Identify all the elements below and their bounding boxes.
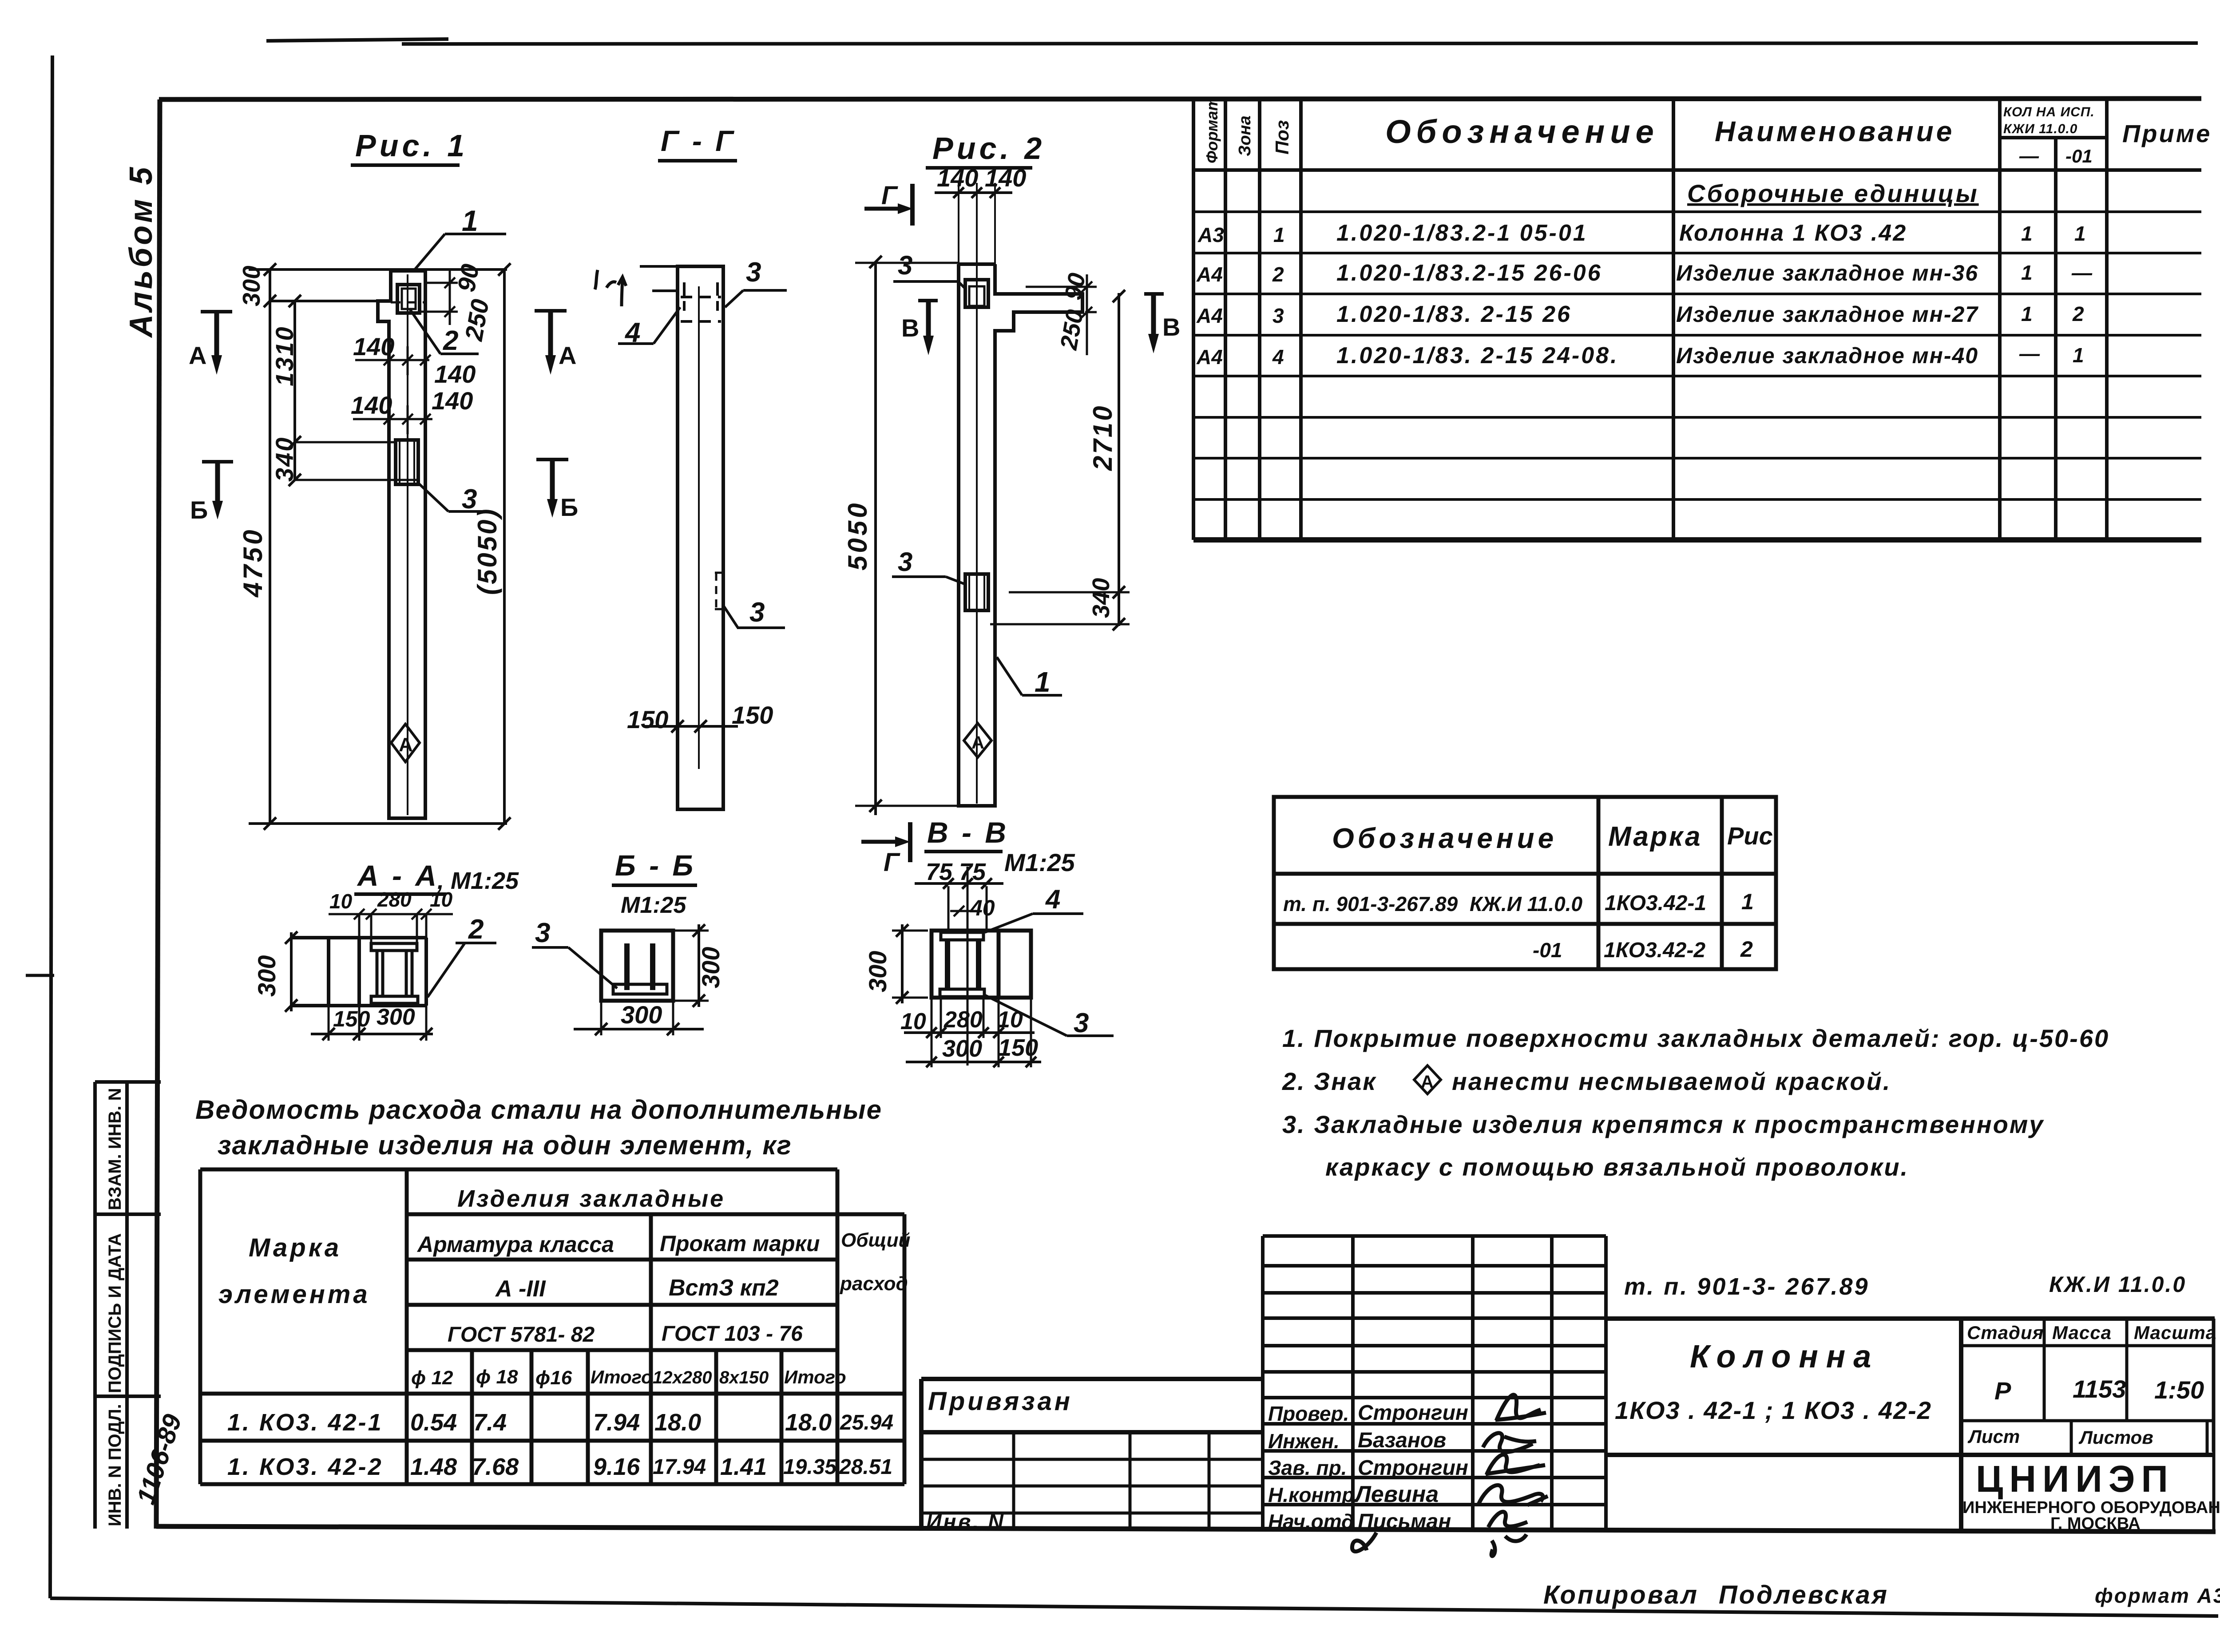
svg-text:ГОСТ 5781- 82: ГОСТ 5781- 82 [448,1323,595,1347]
fig1 dim line 4750 (left) [264,269,276,830]
G-G leader label 4 [618,307,680,348]
svg-text:150: 150 [333,1006,370,1031]
svg-text:1.020-1/83. 2-15 24-08.: 1.020-1/83. 2-15 24-08. [1336,343,1619,368]
svg-text:Нач.отд: Нач.отд [1268,1510,1354,1533]
fig2 column outline with corbel [959,264,1082,806]
svg-text:Инв. N: Инв. N [926,1510,1005,1534]
svg-text:340: 340 [1088,578,1114,618]
V-V leader label 4 [985,884,1083,932]
fig2 dim line 2710/340 right [990,290,1130,630]
fig1 dims 250/90 top right [421,271,458,325]
svg-text:ВЗАМ. ИНВ. N: ВЗАМ. ИНВ. N [105,1088,125,1211]
svg-text:А: А [971,733,984,753]
svg-text:Приме: Приме [2122,119,2212,147]
svg-text:ЦНИИЭП: ЦНИИЭП [1976,1458,2174,1500]
svg-text:В - В: В - В [927,816,1009,849]
svg-text:Итого: Итого [784,1367,846,1387]
svg-text:А: А [189,341,206,369]
fig1 dims 140/140 lower [353,405,432,434]
svg-text:Инжен.: Инжен. [1268,1430,1340,1453]
svg-text:Левина: Левина [1353,1482,1439,1507]
svg-text:1: 1 [2073,344,2084,367]
svg-text:Общий: Общий [841,1229,910,1251]
svg-text:9.16: 9.16 [593,1454,640,1480]
handwritten check mark near G-G [595,270,626,306]
svg-text:Стронгин: Стронгин [1358,1456,1468,1480]
svg-text:КЖ.И 11.0.0: КЖ.И 11.0.0 [2049,1272,2186,1297]
spec table header texts [1203,97,2212,167]
svg-text:закладные изделия на один: закладные изделия на один элемент, кг [218,1130,792,1160]
svg-text:Масшта: Масшта [2134,1322,2216,1343]
svg-text:ϕ16: ϕ16 [535,1367,572,1389]
svg-text:1: 1 [2021,302,2033,325]
svg-text:-01: -01 [1533,939,1562,962]
spec row 2: MN-36 [1196,260,2093,286]
svg-text:3: 3 [898,250,912,280]
fig1 leader label 2 [409,309,479,356]
V-V channel plates item 3 [940,932,984,997]
svg-text:300: 300 [621,1001,662,1029]
svg-text:280: 280 [377,888,412,911]
fold mark on left edge [26,974,54,977]
svg-text:1.41: 1.41 [720,1454,767,1480]
svg-text:140: 140 [937,164,978,192]
G-G side plate marks [715,573,723,609]
svg-text:1: 1 [462,204,478,237]
svg-text:3: 3 [746,257,761,288]
svg-text:7.94: 7.94 [593,1409,640,1436]
svg-text:150: 150 [732,701,773,729]
svg-text:А3: А3 [1197,223,1224,246]
G-G embedded plate dashed [681,282,721,321]
svg-text:формат А3: формат А3 [2095,1584,2220,1607]
G-G leader label 3 top [725,257,787,307]
svg-text:М1:25: М1:25 [1004,848,1075,876]
svg-text:3: 3 [535,918,550,948]
svg-text:элемента: элемента [218,1280,370,1309]
svg-text:40: 40 [970,895,995,920]
svg-text:А: А [399,734,413,756]
svg-text:4: 4 [1272,345,1284,368]
svg-text:В: В [1162,313,1180,341]
signature row: Провер. Стронгин [1268,1401,1468,1425]
svg-text:Лист: Лист [1967,1426,2020,1447]
svg-text:5050: 5050 [843,501,872,570]
svg-text:Рис: Рис [1727,822,1773,850]
fig2 section mark V right [1144,294,1180,353]
svg-text:140: 140 [434,360,476,388]
svg-text:Изделие закладное мн-36: Изделие закладное мн-36 [1676,261,1978,285]
fig1 column outline [378,271,425,818]
note 2 diamond A sign [1414,1066,1441,1094]
svg-text:3: 3 [749,597,765,628]
svg-text:Формат: Формат [1203,97,1221,163]
svg-text:Стадия: Стадия [1967,1322,2044,1343]
svg-text:Марка: Марка [249,1233,341,1262]
fig1 section mark A right [535,311,576,375]
V-V bottom dims 10/280/10 [904,998,1035,1038]
svg-text:1153: 1153 [2073,1375,2126,1403]
title block: stage/mass/scale values [1994,1375,2204,1405]
section V-V title [924,816,1075,885]
steel table data row 2 [227,1454,892,1480]
svg-text:1.020-1/83.2-1 05-01: 1.020-1/83.2-1 05-01 [1336,220,1588,246]
svg-text:Наименование: Наименование [1715,115,1954,147]
fig1 bottom dimension line [249,822,507,825]
B-B bottom dim 300 [574,1001,704,1035]
svg-text:М1:25: М1:25 [621,892,686,918]
V-V section body [932,931,1031,998]
svg-text:Прокат марки: Прокат марки [660,1231,820,1256]
svg-text:3: 3 [1074,1008,1089,1038]
svg-text:7.68: 7.68 [472,1454,519,1480]
svg-text:340: 340 [270,436,298,482]
V-V bottom dims 300/150 [906,998,1041,1067]
G-G column outline [678,266,723,809]
B-B anchor bars item 3 [627,943,653,990]
svg-text:Масса: Масса [2052,1322,2112,1343]
fig2 dim line 5050 left [855,256,959,815]
fig2 section mark G top [864,181,913,226]
fig2 dims 90/250 at corbel [1026,274,1097,355]
A-A bottom dims 150/300 [311,1006,433,1041]
svg-text:300: 300 [253,955,281,997]
steel usage table grid [200,1169,904,1484]
svg-text:А - А: А - А [357,859,439,892]
svg-text:Изделие закладное мн-27: Изделие закладное мн-27 [1676,302,1978,327]
svg-text:1КО3.42-1: 1КО3.42-1 [1605,891,1706,915]
G-G leader label 3 middle [723,597,785,628]
B-B dim 300 right [673,924,709,1007]
album label "Альбом 5" vertical [123,165,159,338]
svg-text:300: 300 [942,1035,982,1062]
svg-text:ϕ 18: ϕ 18 [476,1366,518,1388]
handwritten signatures [1352,1395,1548,1556]
svg-text:4: 4 [1045,884,1060,914]
signature row: Нач.отд Письман [1268,1510,1451,1533]
svg-text:1: 1 [2021,222,2033,245]
spec row 1: column 1 KO3.42 [1197,220,2086,246]
svg-text:2: 2 [1272,263,1284,286]
fig1 leader label 1 [413,204,506,272]
svg-text:Рис. 1: Рис. 1 [355,128,468,163]
svg-text:3: 3 [462,484,477,515]
svg-text:17.94: 17.94 [653,1455,706,1479]
svg-text:Альбом 5: Альбом 5 [123,165,159,338]
G-G axis line [698,286,700,769]
svg-text:—: — [2019,145,2039,167]
svg-text:Колонна 1 КО3 .42: Колонна 1 КО3 .42 [1679,220,1907,246]
svg-text:Зона: Зона [1236,115,1254,156]
svg-text:Арматура класса: Арматура класса [416,1232,614,1257]
svg-text:ГОСТ 103 - 76: ГОСТ 103 - 76 [662,1322,803,1346]
B-B leader label 3 [532,918,617,988]
left binding strip grid [95,1082,161,1529]
title block: central signature grid [1263,1236,1606,1531]
svg-text:В: В [901,314,919,342]
svg-text:т. п. 901-3- 267.89: т. п. 901-3- 267.89 [1624,1273,1870,1300]
signature row: Зав.пр. Стронгин [1268,1456,1468,1480]
fig2 embedded plate 3 lower [965,574,988,610]
svg-text:Базанов: Базанов [1358,1429,1446,1452]
svg-text:Обозначение: Обозначение [1332,822,1557,854]
svg-text:140: 140 [353,333,394,361]
fig2 section mark V left [901,301,938,355]
section G-G title [658,124,737,161]
section A-A title [354,859,519,894]
B-B section body [601,931,673,1001]
title block: sheet labels [1967,1426,2153,1448]
svg-text:Провер.: Провер. [1268,1402,1349,1425]
svg-text:1.020-1/83.2-15 26-06: 1.020-1/83.2-15 26-06 [1336,260,1602,286]
svg-text:Г: Г [884,848,900,877]
svg-text:КЖ.И 11.0.0: КЖ.И 11.0.0 [1470,892,1582,915]
signature row: Инжен. Базанов [1268,1429,1446,1453]
fig1 ledge hidden edge dashed [391,301,425,304]
svg-text:150: 150 [627,705,668,733]
svg-text:140: 140 [432,387,473,415]
A-A section body [291,938,426,1006]
svg-text:А4: А4 [1196,345,1223,368]
svg-text:1КО3 . 42-1 ; 1 КО3 . 42-2: 1КО3 . 42-1 ; 1 КО3 . 42-2 [1615,1396,1932,1424]
figure 2 title [926,131,1045,168]
svg-text:ИНВ. N ПОДЛ.: ИНВ. N ПОДЛ. [105,1404,125,1526]
fig2 leader label 3 top [893,250,966,289]
svg-text:А4: А4 [1196,304,1223,327]
signature row: Н.контр. Левина [1268,1482,1439,1507]
svg-text:нанести несмываемой краской.: нанести несмываемой краской. [1452,1067,1891,1095]
svg-text:Колонна: Колонна [1690,1339,1879,1375]
svg-text:Письман: Письман [1358,1510,1451,1533]
svg-text:Б - Б: Б - Б [615,849,696,882]
svg-text:4750: 4750 [238,527,268,598]
svg-text:Н.контр.: Н.контр. [1268,1483,1360,1506]
A-A dim 300 left [285,931,297,1012]
svg-text:Стронгин: Стронгин [1358,1401,1468,1425]
svg-text:1.48: 1.48 [410,1454,457,1480]
svg-text:1:50: 1:50 [2154,1376,2204,1404]
svg-text:3: 3 [898,547,912,577]
svg-text:Листов: Листов [2078,1427,2153,1448]
fig1 dim line (5050) right [498,269,511,830]
svg-text:Рис. 2: Рис. 2 [932,131,1045,166]
svg-text:300: 300 [377,1004,415,1030]
svg-text:7.4: 7.4 [473,1409,507,1436]
svg-text:2: 2 [1740,937,1753,962]
svg-text:1.020-1/83. 2-15 26: 1.020-1/83. 2-15 26 [1336,301,1572,327]
fig1 leader label 3 [418,483,484,515]
title block: right area lines [1606,1319,2215,1531]
fig1 section mark A left [189,312,232,375]
svg-text:280: 280 [943,1007,983,1033]
svg-text:0.54: 0.54 [410,1409,457,1436]
fig1 section mark B right [536,460,578,521]
A-A top dims 10/280/10 [329,909,453,943]
svg-text:19.35: 19.35 [783,1455,837,1479]
notes text block [1282,1024,2109,1181]
svg-text:Г - Г: Г - Г [661,124,736,157]
figure 1 title [351,128,468,165]
svg-text:18.0: 18.0 [785,1409,832,1436]
fig1 section mark B left [190,462,233,524]
svg-text:1. КО3. 42-2: 1. КО3. 42-2 [227,1454,383,1480]
svg-text:8x150: 8x150 [719,1368,769,1387]
fig1 embedded plate 3 (middle) [396,440,418,484]
svg-text:-01: -01 [2065,146,2093,166]
svg-text:Б: Б [560,493,578,521]
steel table header texts [218,1185,910,1389]
svg-text:300: 300 [864,951,892,992]
svg-text:Ведомость расхода стали на до: Ведомость расхода стали на дополнительны… [195,1095,882,1125]
svg-text:1: 1 [1035,666,1051,698]
svg-text:т. п. 901-3-267.89: т. п. 901-3-267.89 [1283,892,1458,915]
fig1 embedded plate 2 (top) [397,285,420,313]
svg-text:А -III: А -III [495,1276,546,1302]
fig1 dim 300 (top left) [238,265,378,307]
sheet outer border top [266,39,2198,44]
svg-text:3. Закладные изделия крепятся: 3. Закладные изделия крепятся к простран… [1282,1110,2044,1138]
G-G top extension lines [640,266,678,291]
fig1 quality diamond mark A [391,724,420,762]
fig1 dims 140/140 upper [355,346,431,375]
svg-text:ВстЗ кп2: ВстЗ кп2 [669,1275,779,1301]
steel table data row 1 [227,1409,893,1436]
A-A channel item 2 [371,943,418,1003]
svg-text:Б: Б [190,496,208,524]
fig1 column axis line [407,274,408,815]
svg-text:2: 2 [2072,302,2084,325]
svg-text:2710: 2710 [1088,404,1118,471]
fig2 quality diamond mark A [964,723,991,757]
sheet outer border bottom [50,1598,2218,1616]
svg-text:А: А [1421,1072,1434,1092]
svg-text:10: 10 [997,1007,1023,1033]
svg-text:150: 150 [998,1034,1038,1061]
svg-text:90: 90 [1060,271,1091,302]
svg-text:Марка: Марка [1608,821,1702,852]
svg-text:1: 1 [2074,222,2086,245]
svg-text:75: 75 [959,859,986,885]
svg-text:ПОДПИСЬ И ДАТА: ПОДПИСЬ И ДАТА [105,1233,125,1393]
svg-text:3: 3 [1273,304,1284,327]
svg-text:Г. МОСКВА: Г. МОСКВА [2050,1514,2141,1533]
spec row 4: MN-40 [1196,342,2084,368]
svg-text:А4: А4 [1196,263,1223,286]
fig2 leader label 3 lower [892,547,965,584]
specification table grid (top right) [1193,99,2201,540]
svg-text:Р: Р [1994,1377,2011,1405]
svg-text:Изделия закладные: Изделия закладные [457,1185,725,1212]
svg-text:КОЛ НА ИСП.: КОЛ НА ИСП. [2003,105,2095,119]
svg-text:1. КО3. 42-1: 1. КО3. 42-1 [227,1409,383,1436]
G-G dim 150/150 [645,720,738,733]
sheet outer border left [50,55,52,1598]
svg-text:ϕ 12: ϕ 12 [411,1367,453,1389]
svg-text:10: 10 [900,1009,926,1034]
svg-text:каркасу с помощью вязальной: каркасу с помощью вязальной проволоки. [1325,1153,1909,1181]
svg-text:Изделие закладное мн-40: Изделие закладное мн-40 [1676,343,1978,368]
svg-text:18.0: 18.0 [654,1409,701,1436]
svg-text:90: 90 [452,262,484,294]
svg-text:2. Знак: 2. Знак [1282,1067,1377,1095]
svg-text:1КО3.42-2: 1КО3.42-2 [1604,939,1705,962]
fig2 section mark G bottom [861,822,910,877]
svg-text:КЖИ 11.0.0: КЖИ 11.0.0 [2003,122,2077,136]
svg-text:1: 1 [1741,889,1754,914]
svg-text:140: 140 [985,164,1026,192]
svg-text:Привязан: Привязан [928,1387,1073,1416]
fig2 dims 140/140 top [935,164,1026,266]
svg-text:Итого: Итого [591,1367,653,1387]
fig2 axis line [976,266,978,804]
marks table (Обозначение/Марка/Рис) [1274,797,1776,969]
svg-text:Поз: Поз [1272,120,1292,155]
section B-B (lower-middle) title [612,849,697,918]
svg-text:Копировал: Копировал [1543,1581,1699,1609]
fig1 top dimension line [249,263,511,276]
svg-text:10: 10 [430,888,453,911]
svg-text:—: — [2019,342,2040,365]
title block: left sub-grid [921,1432,1263,1531]
fig1 dim line 1310/340 [289,295,420,486]
spec table row: assembly units heading [1687,179,1979,207]
svg-text:А: А [559,341,576,369]
V-V leader label 3 [983,994,1114,1038]
spec row 3: MN-27 [1196,301,2084,327]
V-V dim 40 [950,906,977,916]
svg-text:(5050): (5050) [472,507,502,595]
svg-text:1: 1 [1273,223,1285,246]
svg-text:Сборочные единицы: Сборочные единицы [1687,179,1979,207]
V-V top dim line 75/75 [915,867,1003,1066]
fig2 leader label 1 [997,657,1062,698]
svg-text:Обозначение: Обозначение [1385,113,1659,150]
svg-text:300: 300 [697,947,725,988]
svg-text:25.94: 25.94 [840,1411,893,1434]
svg-text:1: 1 [2021,261,2033,284]
svg-text:Зав. пр.: Зав. пр. [1268,1456,1347,1479]
svg-text:1310: 1310 [270,325,298,386]
svg-text:2: 2 [468,914,484,945]
svg-text:Подлевская: Подлевская [1719,1581,1889,1609]
V-V dim 300 left [892,924,928,1004]
title block: stage/mass/scale headers [1967,1322,2216,1343]
svg-text:—: — [2071,261,2093,284]
steel usage table caption [195,1095,882,1160]
A-A leader label 2 [428,914,496,997]
B-B base plate [613,984,667,994]
svg-text:10: 10 [329,890,353,913]
svg-text:1. Покрытие поверхности заклад: 1. Покрытие поверхности закладных детале… [1282,1024,2109,1052]
svg-text:Г: Г [881,181,898,210]
fig2 embedded plate 3 top [965,280,988,307]
svg-text:140: 140 [351,391,392,419]
svg-text:расход: расход [840,1273,908,1295]
svg-text:2: 2 [443,325,458,356]
svg-text:12x280: 12x280 [653,1368,712,1387]
svg-text:28.51: 28.51 [839,1455,892,1479]
svg-text:300: 300 [238,265,265,306]
title block: left area frame [921,1379,1263,1531]
